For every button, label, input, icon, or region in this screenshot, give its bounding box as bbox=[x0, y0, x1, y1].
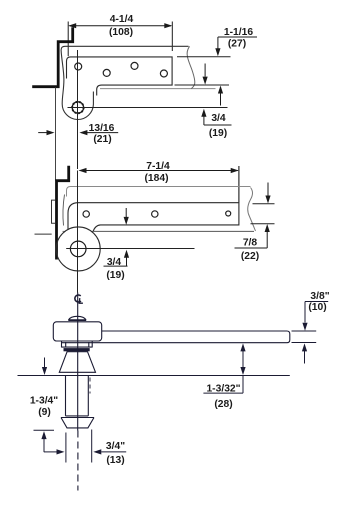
break squiggle top assembly bbox=[187, 46, 195, 88]
reference line y=56.6 right bbox=[177, 56, 231, 58]
pivot axis horizontal line middle bbox=[66, 248, 194, 250]
dim 1-3/4 (9) arrows bbox=[34, 358, 65, 455]
big pivot cam circle bbox=[56, 227, 100, 271]
pivot axis horizontal reference line bbox=[68, 107, 228, 109]
pivot hole top assembly bbox=[72, 102, 83, 113]
cap body bbox=[53, 322, 101, 341]
svg-text:13/16: 13/16 bbox=[89, 123, 115, 134]
dim 7/8 (22) arrows bbox=[235, 183, 271, 249]
plate A bottom edge (grey) bbox=[100, 88, 216, 90]
svg-text:1-3/32": 1-3/32" bbox=[206, 384, 240, 395]
dim 4-1/4 (108) dimension line with arrows bbox=[68, 22, 172, 57]
arm hole 3 bbox=[226, 211, 231, 216]
top plate A outline (frame plate with pivot lobe) bbox=[61, 46, 188, 119]
arm hole 1 bbox=[83, 211, 89, 217]
plate A (floor plate, grey top edge) bbox=[67, 187, 251, 197]
reference line y=202.8 right bbox=[253, 203, 275, 205]
svg-text:3/4": 3/4" bbox=[106, 441, 125, 452]
dim 1-3/32 (28) vertical with arrows bbox=[203, 343, 245, 393]
spindle shaft bbox=[66, 376, 89, 416]
bar reference extensions bbox=[292, 330, 317, 332]
tapered bushing frustum bbox=[59, 352, 95, 373]
svg-text:3/4: 3/4 bbox=[107, 257, 122, 268]
plate A left edge curve bbox=[63, 195, 65, 226]
svg-text:(10): (10) bbox=[308, 302, 326, 313]
screw hole 4 top plate bbox=[160, 70, 167, 77]
arm bar side view bbox=[62, 331, 290, 343]
arm outline (door arm) bbox=[68, 203, 239, 232]
cap dome bbox=[69, 316, 87, 320]
dim 13/16 (21) arrows bbox=[38, 130, 118, 135]
svg-text:(184): (184) bbox=[144, 173, 168, 184]
pivot vertical centerline (runs through both assemblies) bbox=[77, 50, 79, 169]
svg-text:(28): (28) bbox=[214, 399, 232, 410]
svg-text:7-1/4: 7-1/4 bbox=[146, 161, 170, 172]
centerline symbol CL bbox=[75, 295, 83, 303]
dim 3/4 (19) top-right arrows bbox=[201, 86, 231, 126]
collet flare bbox=[61, 418, 94, 428]
plate A bottom edge bbox=[92, 230, 254, 232]
dim 3/4 (13) arrows bbox=[66, 430, 126, 463]
door stop thin rectangle bbox=[52, 200, 56, 223]
shaft hidden line dashes bbox=[89, 378, 91, 394]
screw hole 1 top plate bbox=[75, 63, 82, 70]
dim 3/4 (19) middle arrows bbox=[104, 208, 130, 266]
break squiggle middle assembly bbox=[248, 188, 256, 232]
svg-text:(9): (9) bbox=[38, 407, 51, 418]
svg-text:(21): (21) bbox=[93, 134, 111, 145]
svg-text:7/8: 7/8 bbox=[243, 238, 258, 249]
pivot hole middle assembly bbox=[70, 241, 86, 257]
vertical centerline bottom view bbox=[77, 293, 79, 431]
centerline through middle assembly bbox=[77, 171, 79, 293]
reference line y=223.3 right bbox=[251, 223, 275, 225]
dome base chord bbox=[68, 319, 86, 321]
dim 1-1/16 (27) leader and arrows bbox=[203, 37, 258, 85]
screw hole 2 top plate bbox=[103, 69, 110, 76]
wall line left stub bbox=[35, 233, 52, 235]
frame face line below top assembly bbox=[55, 88, 57, 181]
svg-text:(19): (19) bbox=[209, 128, 227, 139]
frame jamb section (thick) middle-left bbox=[57, 166, 69, 260]
svg-text:3/4: 3/4 bbox=[211, 113, 226, 124]
svg-text:4-1/4: 4-1/4 bbox=[110, 14, 134, 25]
plate B (arm plate) outline bbox=[67, 57, 173, 96]
svg-text:1-3/4": 1-3/4" bbox=[30, 396, 58, 407]
svg-text:(108): (108) bbox=[109, 27, 133, 38]
dim 7-1/4 (184) dimension line bbox=[79, 166, 239, 203]
dim 3/8 (10) bracket bbox=[292, 302, 329, 364]
svg-text:3/8": 3/8" bbox=[310, 291, 329, 302]
reference line y=84.4 right bbox=[175, 84, 230, 86]
svg-text:(13): (13) bbox=[106, 455, 124, 466]
arm hole 2 bbox=[152, 211, 158, 217]
svg-text:(27): (27) bbox=[228, 39, 246, 50]
frame jamb section (thick) top-left bbox=[32, 27, 72, 86]
dashed centerline below floor bbox=[77, 431, 79, 491]
bearing washer (dark) bbox=[64, 348, 90, 351]
floor line bbox=[18, 375, 290, 377]
svg-text:1-1/16: 1-1/16 bbox=[224, 27, 253, 38]
svg-text:(19): (19) bbox=[106, 270, 124, 281]
svg-text:(22): (22) bbox=[241, 251, 259, 262]
shaft step line bbox=[66, 415, 89, 417]
collar below cap bbox=[62, 341, 93, 347]
screw hole 3 top plate bbox=[131, 62, 138, 69]
plate A bottom edge left of circle bbox=[63, 230, 66, 232]
